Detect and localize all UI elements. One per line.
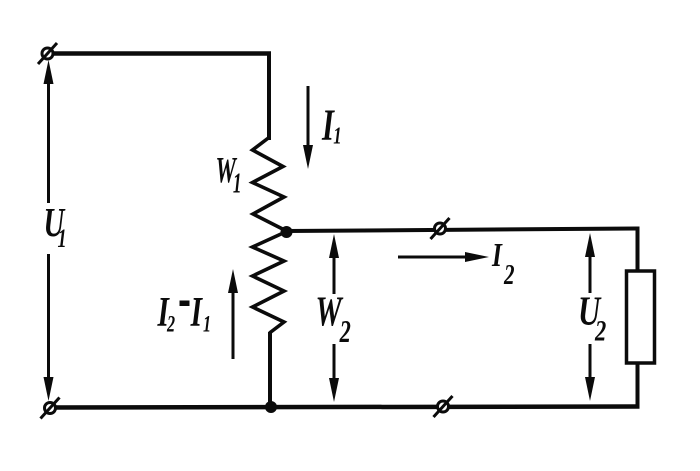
- node bottom junction: [265, 401, 277, 413]
- wire top vertical drop: [267, 52, 271, 141]
- svg-text:1: 1: [333, 124, 341, 149]
- wire right vertical upper: [636, 229, 640, 273]
- label I1: [321, 101, 341, 150]
- svg-text:1: 1: [58, 224, 67, 253]
- label I2-I1: [157, 289, 211, 337]
- resistor W1 (upper winding zigzag): [253, 138, 287, 232]
- wire right vertical lower: [636, 362, 640, 407]
- label U2: [578, 288, 606, 347]
- svg-text:1: 1: [203, 312, 211, 337]
- svg-text:2: 2: [166, 312, 175, 337]
- wire bottom vertical section: [268, 332, 272, 409]
- label I2: [491, 235, 514, 290]
- resistor W2 (lower winding zigzag): [253, 232, 287, 334]
- terminal bottom wire: [434, 396, 453, 417]
- wire middle horizontal: [287, 229, 640, 232]
- terminal middle wire: [431, 218, 450, 239]
- wire top horizontal: [47, 51, 271, 56]
- arrow I2-I1 (current up through W2): [228, 269, 238, 359]
- svg-text:1: 1: [233, 168, 242, 199]
- arrow I2 (current right on middle wire): [398, 252, 489, 262]
- svg-text:2: 2: [339, 313, 351, 349]
- arrow W2 (winding span double arrow): [329, 234, 339, 402]
- arrow U2 (output voltage double arrow): [585, 233, 595, 401]
- arrow U1 (left voltage double arrow): [44, 60, 54, 401]
- svg-text:2: 2: [594, 313, 606, 347]
- label W1: [216, 150, 242, 200]
- load resistor rectangle: [627, 271, 655, 363]
- svg-text:2: 2: [503, 260, 514, 291]
- node tap junction: [281, 226, 293, 238]
- svg-text:I: I: [190, 289, 204, 335]
- label U1: [44, 199, 67, 253]
- terminal bottom-left: [41, 398, 60, 419]
- label W2: [316, 288, 352, 349]
- arrow I1 (current down): [303, 86, 313, 169]
- svg-text:I: I: [491, 235, 503, 273]
- wire bottom horizontal: [49, 407, 640, 408]
- terminal top-left: [38, 43, 57, 64]
